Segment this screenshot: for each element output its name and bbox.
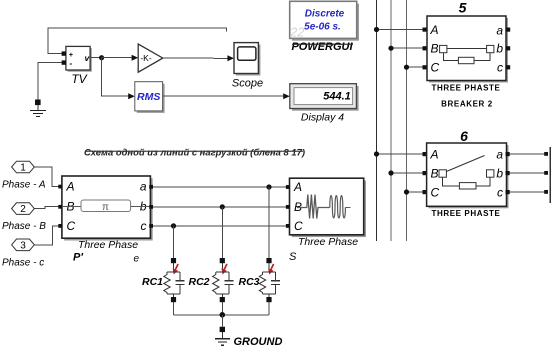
- svg-text:1: 1: [20, 163, 26, 174]
- wire RMS to Display 4: [163, 95, 285, 97]
- input port 2: [12, 203, 35, 215]
- svg-text:c: c: [497, 61, 503, 75]
- ground G2: [215, 327, 230, 346]
- wire junction down to RMS: [102, 58, 130, 96]
- node a to RC3: [266, 184, 271, 189]
- svg-text:5e-06 s.: 5e-06 s.: [304, 22, 341, 33]
- svg-text:Phase - B: Phase - B: [2, 221, 46, 232]
- branch RC3: [259, 258, 280, 302]
- wire node a down to RC3: [268, 187, 270, 258]
- svg-text:C: C: [67, 219, 76, 233]
- wire port3 to line C: [34, 226, 58, 245]
- svg-text:e: e: [134, 254, 140, 265]
- wire breaker6 b to right block: [510, 172, 545, 174]
- svg-text:RC2: RC2: [189, 276, 210, 288]
- svg-text:GROUND: GROUND: [234, 336, 283, 348]
- svg-text:Phase - c: Phase - c: [2, 258, 44, 269]
- svg-text:Схема одной из линий с нагрузк: Схема одной из линий с нагрузкой (блена …: [84, 148, 305, 159]
- wire breaker6 c to right block: [510, 191, 545, 193]
- wire line c: [153, 225, 286, 227]
- wire bus to ground port: [221, 315, 223, 327]
- svg-text:C: C: [431, 61, 440, 75]
- wire RC1 to bottom bus: [173, 302, 175, 315]
- svg-text:RMS: RMS: [137, 91, 160, 103]
- RMS block: [135, 82, 165, 113]
- wire gain to Scope: [163, 57, 229, 59]
- Display 4 block: [290, 84, 359, 111]
- svg-text:c: c: [141, 219, 147, 233]
- svg-text:5: 5: [459, 0, 467, 16]
- node junction after TV output: [90, 57, 102, 59]
- wire bus3 to breaker5 C: [407, 66, 424, 68]
- svg-text:A: A: [293, 180, 302, 194]
- svg-text:POWERGUI: POWERGUI: [291, 41, 353, 53]
- svg-text:b: b: [496, 167, 503, 181]
- svg-text:P': P': [73, 252, 83, 264]
- svg-text:6: 6: [460, 128, 468, 144]
- svg-text:b: b: [496, 42, 503, 56]
- node bottom bus to ground: [220, 312, 226, 318]
- bus line 2: [390, 0, 392, 241]
- wire TV minus input to ground: [38, 63, 62, 101]
- svg-text:S: S: [289, 251, 297, 263]
- svg-text:Three Phase: Three Phase: [78, 239, 138, 251]
- bus line 1: [376, 0, 378, 241]
- title text (russian): [84, 148, 305, 159]
- svg-text:-: -: [69, 58, 72, 68]
- Scope block: [234, 43, 260, 76]
- svg-text:RC1: RC1: [142, 276, 163, 288]
- svg-text:THREE PHASTE: THREE PHASTE: [432, 84, 501, 93]
- wire port1 to line A: [34, 167, 58, 187]
- svg-text:A: A: [430, 23, 439, 37]
- wire line a (pi out to coil block A): [153, 186, 286, 188]
- label POWERGUI: [291, 41, 353, 53]
- svg-text:RC3: RC3: [239, 276, 260, 288]
- wire bus2 to breaker6 B: [391, 172, 424, 174]
- three-phase breaker block (number 6): [427, 143, 510, 208]
- ground G1: [30, 100, 46, 117]
- wire bus1 to breaker6 A: [377, 153, 424, 155]
- svg-text:B: B: [431, 42, 439, 56]
- wire node c down to RC1: [173, 226, 175, 258]
- branch RC1: [164, 258, 185, 302]
- voltage measurement block TV: [62, 46, 92, 71]
- bottom bus wire: [174, 314, 270, 316]
- node b to RC2: [220, 204, 225, 209]
- svg-text:a: a: [496, 148, 503, 162]
- wire breaker6 a to right block: [510, 153, 545, 155]
- wire RC3 to bottom bus: [268, 302, 270, 315]
- svg-text:THREE PHASTE: THREE PHASTE: [432, 209, 501, 218]
- svg-text:a: a: [496, 24, 503, 38]
- svg-text:TV: TV: [71, 72, 87, 86]
- svg-text:22: 22: [289, 25, 305, 40]
- svg-text:a: a: [140, 180, 147, 194]
- wire feedback from TV plus input up and across top: [48, 28, 227, 54]
- svg-text:C: C: [294, 219, 303, 233]
- svg-text:Discrete: Discrete: [305, 9, 345, 20]
- svg-text:-K-: -K-: [140, 53, 152, 63]
- wire bus3 to breaker6 C: [407, 191, 424, 193]
- wire line b: [153, 206, 286, 208]
- svg-text:544.1: 544.1: [323, 91, 351, 103]
- gain U1 -K-: [138, 44, 163, 72]
- right edge block (cut off): [549, 147, 551, 203]
- svg-text:3: 3: [20, 240, 26, 251]
- wire port2 to line B: [34, 207, 58, 209]
- branch RC2: [213, 258, 234, 302]
- input port 3: [12, 239, 35, 251]
- svg-text:Scope: Scope: [232, 78, 263, 90]
- wire RC2 to bottom bus: [221, 302, 223, 315]
- three-phase source block (coils): [286, 178, 366, 237]
- three-phase PI section line block: [58, 176, 153, 241]
- svg-text:Display 4: Display 4: [301, 112, 344, 124]
- svg-text:2: 2: [20, 204, 26, 215]
- wire node b down to RC2: [221, 207, 223, 258]
- POWERGUI block: [289, 1, 359, 40]
- bus line 3: [406, 0, 408, 241]
- svg-text:BREAKER 2: BREAKER 2: [441, 100, 493, 109]
- wire junction to gain: [102, 57, 133, 59]
- wire bus1 to breaker5 A: [377, 29, 424, 31]
- svg-text:c: c: [497, 186, 503, 200]
- svg-text:π: π: [102, 202, 109, 213]
- wire bus2 to breaker5 B: [391, 47, 424, 49]
- svg-text:C: C: [431, 186, 440, 200]
- svg-text:A: A: [430, 148, 439, 162]
- node c to RC1: [171, 223, 176, 228]
- svg-text:Phase - A: Phase - A: [2, 180, 46, 191]
- input port 1: [12, 161, 35, 173]
- three-phase breaker 2 block (number 5): [427, 16, 510, 83]
- svg-text:Three Phase: Three Phase: [298, 236, 358, 248]
- svg-text:B: B: [431, 167, 439, 181]
- svg-text:A: A: [66, 180, 75, 194]
